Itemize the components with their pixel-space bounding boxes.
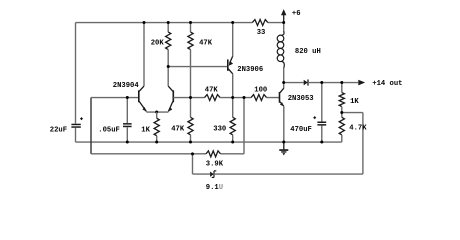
- svg-text:330: 330: [213, 126, 226, 134]
- wire inner box left edge: [90, 98, 92, 154]
- junction output line / inductor / Q4 collector: [282, 81, 285, 84]
- junction Q1 base wire / .05uF: [126, 96, 129, 99]
- svg-text:47K: 47K: [199, 39, 213, 47]
- junction bottom rail / Q4 emitter / ground: [282, 141, 285, 144]
- resistor 100: [251, 95, 267, 101]
- junction top rail / Q1 collector: [143, 21, 146, 24]
- svg-text:33: 33: [257, 29, 266, 37]
- wire 22uF bottom stub: [75, 128, 77, 142]
- svg-text:.05uF: .05uF: [98, 127, 120, 135]
- svg-text:1K: 1K: [350, 98, 359, 106]
- wire 20K column top stub: [167, 23, 169, 33]
- wire 330 column: [232, 98, 234, 118]
- transistor Q3 2N3906: [227, 59, 229, 70]
- wire top rail right part: [268, 22, 284, 24]
- wire 330 stub: [232, 135, 234, 142]
- wire descender to 3.9K node: [243, 98, 245, 154]
- svg-text:+14 out: +14 out: [372, 80, 402, 88]
- junction top rail / 20K column: [167, 21, 170, 24]
- junction bottom rail / 330: [231, 141, 234, 144]
- svg-text:22uF: 22uF: [50, 127, 67, 135]
- wire emitters join: [146, 111, 168, 113]
- svg-text:4.7K: 4.7K: [349, 125, 367, 133]
- svg-text:1K: 1K: [141, 127, 150, 135]
- wire 20K column lower: [167, 50, 169, 87]
- svg-text:47K: 47K: [171, 126, 185, 134]
- wire top rail left part: [76, 22, 253, 24]
- wire 1K stub top: [156, 112, 158, 118]
- node 20K / base wire dot: [167, 65, 170, 68]
- node emitter join dot: [155, 111, 158, 114]
- junction bottom rail / .05uF: [126, 141, 129, 144]
- capacitor C .05uF: [126, 98, 128, 124]
- wire zener drop: [192, 154, 194, 174]
- inductor 820uH: [283, 23, 285, 32]
- resistor 20K: [166, 32, 171, 50]
- wire bottom rail: [76, 141, 342, 143]
- wire collector left 2N3904: [143, 23, 145, 87]
- svg-text:2N3906: 2N3906: [237, 66, 263, 74]
- wire feedback riser: [362, 113, 364, 175]
- resistor 47K (lower): [188, 117, 193, 135]
- wire inner box top (base of left 2N3904): [91, 97, 138, 99]
- junction base bus / 47K columns: [189, 96, 192, 99]
- resistor 47K (upper): [188, 32, 193, 50]
- wire 47K lower stub: [190, 135, 192, 142]
- wire base bus segment a: [173, 97, 204, 99]
- junction top rail / +6 / inductor: [282, 21, 285, 24]
- power +6 arrow: [283, 15, 285, 23]
- wire lower node bus y=153: [91, 153, 206, 155]
- resistor 330: [230, 117, 235, 135]
- resistor 1K (emitter): [154, 118, 159, 136]
- junction bottom rail / 470uF: [320, 141, 323, 144]
- wire zener line left: [193, 173, 211, 175]
- resistor 1K (output divider top): [341, 83, 343, 93]
- junction bottom rail / 47K lower: [189, 141, 192, 144]
- svg-text:20K: 20K: [151, 39, 165, 47]
- svg-text:47K: 47K: [205, 87, 219, 95]
- diode D1: [304, 80, 308, 86]
- wire 47K lower column: [190, 98, 192, 118]
- svg-text:+6: +6: [292, 10, 301, 18]
- junction top rail / 47K column: [189, 21, 192, 24]
- node 3.9K tee dot: [191, 152, 194, 155]
- svg-text:820 uH: 820 uH: [295, 48, 321, 56]
- junction output line / 470uF: [320, 81, 323, 84]
- output arrow +14 out: [358, 80, 365, 86]
- wire lower node bus right: [221, 153, 245, 155]
- svg-text:470uF: 470uF: [290, 126, 312, 134]
- wire 47K upper column stub: [190, 23, 192, 33]
- wire tap to divider: [342, 112, 363, 114]
- ground: [283, 142, 285, 149]
- wire 1K stub bottom: [156, 136, 158, 142]
- svg-text:9.1U: 9.1U: [206, 184, 223, 192]
- resistor 4.7K: [339, 117, 344, 135]
- junction 1K / 4.7K divider tap: [340, 111, 343, 114]
- wire 47K column to base bus: [190, 50, 192, 98]
- junction output line / 1K divider: [340, 81, 343, 84]
- junction base bus / descender: [243, 96, 246, 99]
- wire 2N3906 base wire: [168, 66, 228, 68]
- junction top rail / Q3 emitter: [231, 21, 234, 24]
- junction base bus / Q3 collector / 330: [231, 96, 234, 99]
- transistor Q4 2N3053: [279, 92, 281, 103]
- svg-text:3.9K: 3.9K: [206, 160, 224, 168]
- wire output line b: [308, 82, 358, 84]
- resistor 3.9K: [206, 151, 221, 157]
- junction bottom rail / 1K emitter resistor: [155, 141, 158, 144]
- resistor 33: [252, 20, 268, 26]
- wire base bus segment b: [220, 97, 251, 99]
- transistor Q2 2N3904 right (mirrored): [172, 90, 174, 102]
- wire output line: [284, 82, 304, 84]
- diode zener 9.1V: [210, 171, 214, 176]
- svg-text:2N3904: 2N3904: [113, 82, 140, 90]
- wire 2N3906 collector down: [232, 74, 234, 98]
- wire 2N3053 emitter down: [283, 106, 285, 142]
- capacitor C 22uF: [71, 117, 83, 127]
- capacitor C 470uF: [321, 83, 323, 122]
- wire base bus segment c: [267, 97, 280, 99]
- wire 2N3906 emitter up: [232, 23, 234, 57]
- wire left column 22uF branch upper: [75, 23, 77, 124]
- resistor 47K (horizontal): [205, 95, 221, 101]
- svg-text:100: 100: [254, 87, 267, 95]
- svg-text:2N3053: 2N3053: [288, 95, 314, 103]
- transistor Q1 2N3904 left: [138, 90, 140, 102]
- wire zener line right: [214, 173, 363, 175]
